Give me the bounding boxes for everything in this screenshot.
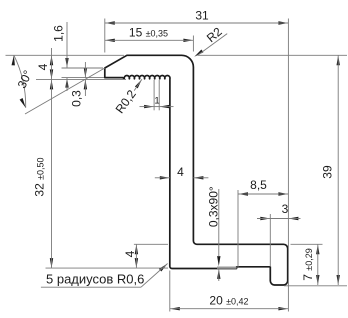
svg-text:8,5: 8,5 <box>250 178 267 192</box>
svg-text:3: 3 <box>282 202 289 216</box>
svg-text:31: 31 <box>195 9 209 23</box>
svg-text:20 ±0,42: 20 ±0,42 <box>209 294 248 308</box>
svg-text:39: 39 <box>321 165 335 179</box>
svg-text:4: 4 <box>123 250 137 257</box>
svg-text:1: 1 <box>154 96 159 107</box>
svg-text:5 радиусов R0,6: 5 радиусов R0,6 <box>46 272 144 287</box>
svg-text:4: 4 <box>177 165 184 179</box>
svg-text:0,3: 0,3 <box>70 90 84 107</box>
svg-text:4: 4 <box>36 63 50 70</box>
svg-text:1,6: 1,6 <box>52 25 66 42</box>
svg-text:32 ±0,50: 32 ±0,50 <box>33 157 47 196</box>
svg-text:7 ±0,29: 7 ±0,29 <box>301 248 315 280</box>
svg-text:0,3x90°: 0,3x90° <box>207 186 221 227</box>
svg-text:15 ±0,35: 15 ±0,35 <box>129 26 168 40</box>
